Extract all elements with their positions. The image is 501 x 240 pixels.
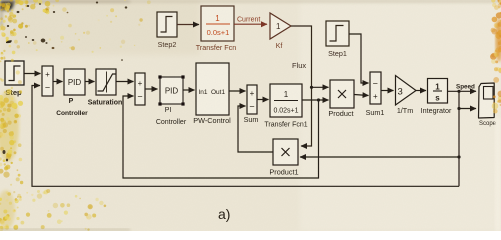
junction speed feedback [457, 90, 460, 93]
scan noise: orange strip top-right edge [490, 0, 501, 113]
transfer function block Transfer Fcn1 [270, 84, 302, 117]
sum Sum (speed error) [42, 66, 53, 96]
wire Transfer Fcn to Kf, node Current [234, 23, 267, 25]
scan noise: dark specks [3, 2, 128, 162]
wire P controller to Saturation [85, 81, 95, 83]
PID block P Controller [64, 69, 85, 95]
wire Sum to Transfer Fcn1 [257, 99, 269, 101]
block Step1 [326, 21, 349, 46]
paper grain overlay [0, 0, 1, 1]
wire Sum1 to gain 1/Tm [381, 90, 394, 92]
wire Saturation to Sum2 [116, 81, 134, 83]
wire Step to Sum [24, 73, 41, 75]
sum Sum1 (torque minus load) [370, 72, 381, 104]
wire Transfer Fcn1 to Product input 2 [302, 99, 329, 101]
product Product1 (mirrored) [273, 139, 298, 165]
wire speed to Product1 input 2 [300, 156, 459, 158]
wire to Scope input 2 [459, 108, 476, 110]
block Step [5, 61, 24, 85]
scan noise: yellow speckles left edge [0, 0, 151, 231]
wire Product1 to Sum minus input [238, 106, 273, 152]
subsystem PW-Control [196, 63, 229, 115]
junction current feedback [317, 98, 320, 101]
scan noise: bottom edge gray smear [0, 229, 130, 232]
block Saturation [96, 69, 116, 95]
wire PI controller to PW-Control [183, 89, 195, 91]
wire PW-Control to Sum [229, 90, 246, 92]
product Product [330, 80, 354, 108]
junction flux to Product [310, 86, 313, 89]
wire Kf to Flux node (down to products) [291, 26, 312, 146]
PID block PI Controller (selected) [158, 75, 184, 105]
wire Integrator to Scope, node Speed [447, 90, 476, 92]
scope block [479, 83, 495, 118]
block Step2 [157, 12, 177, 37]
sum Sum2 (current loop) [135, 73, 145, 105]
junction to Product1 input 2 [457, 155, 460, 158]
wire Step2 to Transfer Fcn [177, 24, 199, 26]
scan noise: dark top-left corner [0, 0, 501, 27]
wire speed down feedback trunk [458, 91, 460, 186]
scan noise: light strip right edge lower [495, 118, 501, 231]
junction scope input 2 [457, 107, 460, 110]
wire Sum2 to PI controller [145, 88, 158, 90]
wire flux branch to Product input 1 [312, 86, 329, 88]
wire current feedback to Sum2 minus [123, 96, 319, 178]
gain 1/Tm [396, 76, 417, 106]
sum Sum (voltage minus emf) [247, 85, 257, 114]
transfer function block Transfer Fcn [201, 6, 234, 41]
wire speed feedback to Sum minus [32, 86, 459, 187]
gain Kf [270, 13, 291, 39]
integrator block [428, 79, 448, 104]
wire 1/Tm to Integrator [416, 90, 426, 92]
wire Step1 to Sum1 minus input [349, 34, 369, 83]
scan noise: yellow band top-left [0, 0, 50, 36]
wire Product to Sum1 plus [354, 95, 369, 96]
wire Sum to P controller [53, 81, 63, 83]
